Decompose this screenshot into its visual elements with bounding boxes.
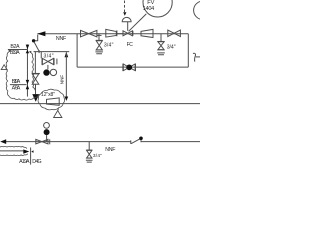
valve drain 1 top bar (96, 39, 103, 41)
spec break arrow up at B19A (26, 50, 30, 54)
flow arrow into bottom spec break (23, 149, 29, 153)
svg-text:12"x8": 12"x8" (41, 92, 55, 98)
wire stem below vertical valve (35, 84, 37, 94)
svg-text:D4G: D4G (32, 159, 41, 165)
revision cloud bottom top edge (0, 146, 27, 148)
wire bottom header left segment (5, 141, 131, 143)
actuator diaphragm dome (122, 17, 131, 21)
cap double underline drain 3 (86, 160, 93, 162)
wire branch down to left vertical valve (34, 52, 36, 74)
spec break line vertical upper (26, 44, 28, 96)
revision triangle left (1, 65, 7, 70)
flange tick drain 1 (97, 34, 102, 36)
revision cloud upper bottom edge (9, 95, 39, 101)
valve drain 2 top bar (158, 40, 165, 42)
instrument bubble FV 1404 (143, 0, 172, 17)
spec break arrow right side small (31, 150, 33, 153)
valve drain 2 body (158, 42, 164, 50)
wire diagonal from junction down to drain line (34, 42, 39, 52)
cap double underline drain 2 (157, 53, 165, 55)
valve vertical (left relief) top bar (32, 72, 40, 74)
wire bypass line (77, 66, 188, 68)
valve V-block bowtie (42, 58, 53, 64)
valve bottom stem (46, 135, 48, 142)
swing connector right tick (140, 140, 142, 142)
flow arrow down into mid header (32, 94, 39, 102)
control valve stem (127, 22, 129, 31)
svg-text:B19A: B19A (10, 50, 20, 56)
reducer right of control valve (141, 29, 153, 37)
valve V-block left flange (41, 58, 43, 65)
swing connector left tick (130, 140, 132, 144)
wire pipe inside bottom cloud (0, 150, 23, 152)
wire bypass right riser (187, 34, 189, 67)
flow arrow down into mid header from drop line (65, 97, 69, 101)
pipe break squiggle curve (193, 53, 196, 61)
spec break separator B2A/B19A (8, 48, 28, 50)
wire branch down to 3/4 drain valve 1 (98, 34, 100, 41)
valve gate top right (168, 30, 181, 36)
valve globe bypass right flange (135, 64, 137, 71)
wire mid header full width (0, 103, 200, 105)
revision cloud bottom lower edge (0, 154, 28, 156)
svg-text:3/4": 3/4" (44, 53, 54, 59)
svg-text:3/4": 3/4" (167, 44, 176, 50)
valve drain 2 bottom bar (158, 49, 165, 51)
svg-text:FV: FV (147, 0, 154, 6)
valve drain 1 body (96, 41, 102, 50)
blind flange bar (56, 59, 58, 65)
spec break arrow up at A79A (26, 85, 30, 89)
wire NNF vertical drop line (65, 52, 67, 96)
valve bottom left bowtie (36, 139, 48, 144)
svg-text:B19A: B19A (12, 79, 21, 85)
instrument bubble partial at top right (194, 1, 212, 19)
wire bypass left riser (76, 34, 78, 67)
spectacle blind closed disc (43, 69, 49, 75)
svg-text:1404: 1404 (143, 6, 155, 12)
valve globe bypass bowtie (123, 64, 135, 71)
flow arrow bottom header pointing left (0, 139, 6, 144)
svg-text:NNF: NNF (60, 75, 65, 85)
valve drain 3 top bar (86, 149, 92, 151)
spec break bar bottom (30, 148, 32, 165)
valve globe bypass left flange (122, 64, 124, 71)
spec break arrow down at B2A (26, 45, 30, 50)
svg-text:FC: FC (127, 42, 134, 48)
instrument signal dashed line (124, 1, 126, 13)
flow arrow on top header pointing left (37, 31, 45, 36)
wire branch down to 3/4 drain valve 3 (88, 142, 90, 150)
swing connector pivot dot (139, 137, 143, 141)
flange tick at diagonal landing (38, 50, 40, 53)
revision cloud upper left side (6, 50, 11, 96)
valve drain 3 body (87, 150, 92, 158)
valve drain 1 bottom bar (96, 49, 103, 51)
flange bar left of control valve (116, 30, 118, 36)
revision cloud around reducer note top (38, 89, 65, 110)
valve drain 3 bottom bar (86, 157, 92, 159)
svg-text:A79A: A79A (12, 86, 21, 92)
valve vertical (left relief) body (32, 74, 39, 84)
valve bottom position ball open (44, 123, 50, 129)
flow arrow up into drain sub-line (65, 52, 69, 57)
wire bottom header right segment (141, 141, 200, 143)
svg-text:A19A: A19A (19, 159, 30, 165)
control valve right flange (132, 31, 134, 36)
valve bottom position ball filled (44, 129, 50, 135)
reducer on mid header (47, 98, 60, 105)
swing connector lever (131, 139, 140, 144)
revision triangle below cloud (54, 111, 62, 118)
wire leader from valve to instrument bubble (129, 14, 147, 31)
wire elbow from arrow tip down-left to junction (34, 35, 38, 41)
valve V-block right flange (53, 58, 55, 65)
revision cloud upper right side (29, 51, 35, 93)
pipe break squiggle stub (196, 56, 200, 58)
signal arrow onto dome (123, 12, 126, 16)
spec break arrow down at B19A lower (26, 80, 30, 85)
svg-text:NNF: NNF (56, 36, 67, 42)
valve gate main line left (81, 30, 97, 37)
node junction dot (32, 39, 35, 42)
wire main top header line (37, 33, 188, 35)
wire stem to spectacle blind (47, 65, 49, 70)
svg-text:3/4": 3/4" (104, 42, 114, 48)
spec break separator B19A/A79A (10, 84, 27, 86)
valve globe bypass ball (126, 64, 132, 70)
svg-text:NNF: NNF (105, 147, 115, 153)
wire branch down to 3/4 drain valve 2 (160, 34, 162, 42)
spectacle blind open disc (50, 69, 56, 75)
svg-text:3/4": 3/4" (93, 153, 102, 159)
flange tick right of bottom valve (49, 139, 51, 144)
control valve FV-1404 body (123, 31, 132, 36)
cap double underline drain 1 (95, 52, 103, 54)
reducer left of control valve (106, 29, 117, 37)
wire branch down to small block valve (40, 52, 42, 59)
wire drain sub-line (34, 51, 70, 53)
revision triangle leader (57, 108, 60, 110)
wire spool to control valve (117, 33, 123, 35)
